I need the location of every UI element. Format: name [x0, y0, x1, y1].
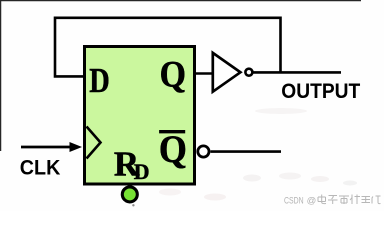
svg-text:D: D [134, 160, 150, 184]
svg-text:CLK: CLK [20, 156, 61, 180]
svg-text:Q: Q [160, 55, 186, 96]
svg-text:D: D [89, 61, 110, 100]
svg-text:OUTPUT: OUTPUT [281, 79, 360, 103]
svg-text:CSDN: CSDN [284, 196, 304, 207]
svg-text:@: @ [307, 196, 317, 207]
svg-text:Q: Q [159, 128, 187, 171]
